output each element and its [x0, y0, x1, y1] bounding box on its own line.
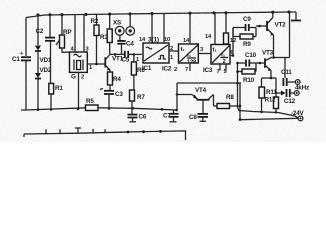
- resistor R4: [108, 70, 122, 85]
- bus stub 2: [59, 129, 61, 133]
- wire VT3 emitter down: [270, 71, 272, 79]
- wire IC2 pin 3 to IC3: [198, 53, 211, 55]
- wire VT2 collector to rail: [272, 12, 274, 17]
- wire C9 R9 junction to VT2 base: [232, 28, 234, 37]
- resistor R8: [214, 94, 241, 109]
- capacitor C1: [12, 51, 31, 63]
- wire output column from rail: [289, 12, 291, 58]
- bus stub 5: [104, 129, 106, 133]
- bus stub 3: [75, 128, 81, 133]
- resistor R10: [237, 69, 256, 84]
- wire left ground rail: [21, 108, 86, 110]
- wire bottom supply bus: [24, 131, 186, 140]
- wire G pin 3: [83, 14, 85, 52]
- capacitor C10: [237, 52, 257, 67]
- wire VT4 emitter left: [177, 94, 192, 96]
- wire IC1 pin 14: [151, 14, 153, 43]
- socket XS: [113, 14, 135, 41]
- wire VT4 base down: [202, 100, 204, 108]
- node dots on bottom bus: [127, 118, 242, 133]
- wire R8 right to supply rail: [239, 83, 241, 120]
- wire C2 R1 column: [49, 15, 51, 37]
- wire IC1 pin 10: [163, 14, 165, 44]
- capacitor C2: [36, 28, 56, 41]
- wire C1 column: [25, 18, 27, 57]
- IC1 converter box: [142, 43, 169, 72]
- capacitor C8: [189, 108, 208, 122]
- resistor R12: [265, 78, 279, 113]
- wire IC2 VT4 coupling node: [232, 28, 234, 56]
- capacitor C7: [163, 110, 179, 122]
- wire junction to output column: [274, 57, 290, 59]
- capacitor C12: [275, 89, 296, 105]
- capacitor C6: [128, 108, 147, 122]
- capacitor C11: [281, 69, 295, 86]
- node dots on top rail: [36, 10, 290, 16]
- wire -24V rail: [240, 118, 298, 119]
- resistor R3: [100, 14, 112, 54]
- bus stub 4: [92, 129, 94, 133]
- terminal output 2: [294, 91, 299, 96]
- wire node column to R6: [133, 54, 135, 62]
- diode VD2: [35, 67, 52, 79]
- terminal -24V: [298, 116, 303, 121]
- wire IC3 pin 6 output: [230, 55, 233, 57]
- resistor R2: [91, 14, 100, 65]
- resistor R9: [233, 34, 256, 48]
- capacitor C4: [117, 41, 134, 55]
- resistor on IC3 pin 12: [224, 13, 237, 45]
- wire IC1 pin 2 to IC2: [169, 50, 179, 52]
- wire top rail: [26, 12, 296, 18]
- transistor VT1: [105, 55, 123, 71]
- transistor VT3: [262, 50, 274, 71]
- node junction at IC1 input: [133, 53, 136, 56]
- transistor VT2: [267, 18, 286, 36]
- wire G pin 2: [78, 72, 80, 108]
- terminal output 1: [295, 80, 300, 85]
- wire VT4 top feedback: [177, 82, 241, 84]
- wire VT4 collector to R8: [213, 95, 215, 107]
- wire IC3 pin 14: [214, 13, 216, 45]
- resistor R7: [130, 90, 146, 108]
- wire IC3 bottom pins: [219, 64, 221, 71]
- transistor VT4: [192, 87, 214, 100]
- wire IC2 bottom pin: [189, 63, 191, 71]
- wire top rail right end terminal: [295, 12, 297, 20]
- wire R11 R12 bottoms: [238, 107, 279, 113]
- wire G pin 1 to VT1 base: [87, 63, 105, 65]
- wire C10 R10 left node: [237, 63, 239, 107]
- bus stub 1: [45, 129, 47, 133]
- crystal oscillator module G: [70, 52, 88, 81]
- wire VT2 emitter down to VT3 collector junction: [273, 35, 275, 58]
- wire RP column: [61, 15, 63, 35]
- capacitor C3: [100, 85, 123, 108]
- diode VD1: [35, 46, 52, 65]
- node dots on ground rail: [37, 107, 178, 111]
- wire IC2 pin 14: [189, 13, 191, 44]
- resistor R1: [49, 83, 64, 94]
- IC3 divider box: [203, 45, 230, 75]
- resistor R11: [259, 78, 277, 112]
- resistor R6: [131, 62, 145, 90]
- wire C10 R10 right node to VT3 base: [255, 63, 257, 72]
- potentiometer RP: [56, 29, 71, 48]
- capacitor C5: [110, 51, 142, 64]
- resistor R5: [86, 98, 99, 111]
- IC2 divider box: [162, 44, 198, 73]
- wire VD column: [37, 15, 39, 45]
- wire G pin 4: [74, 15, 76, 53]
- capacitor C9: [233, 16, 256, 31]
